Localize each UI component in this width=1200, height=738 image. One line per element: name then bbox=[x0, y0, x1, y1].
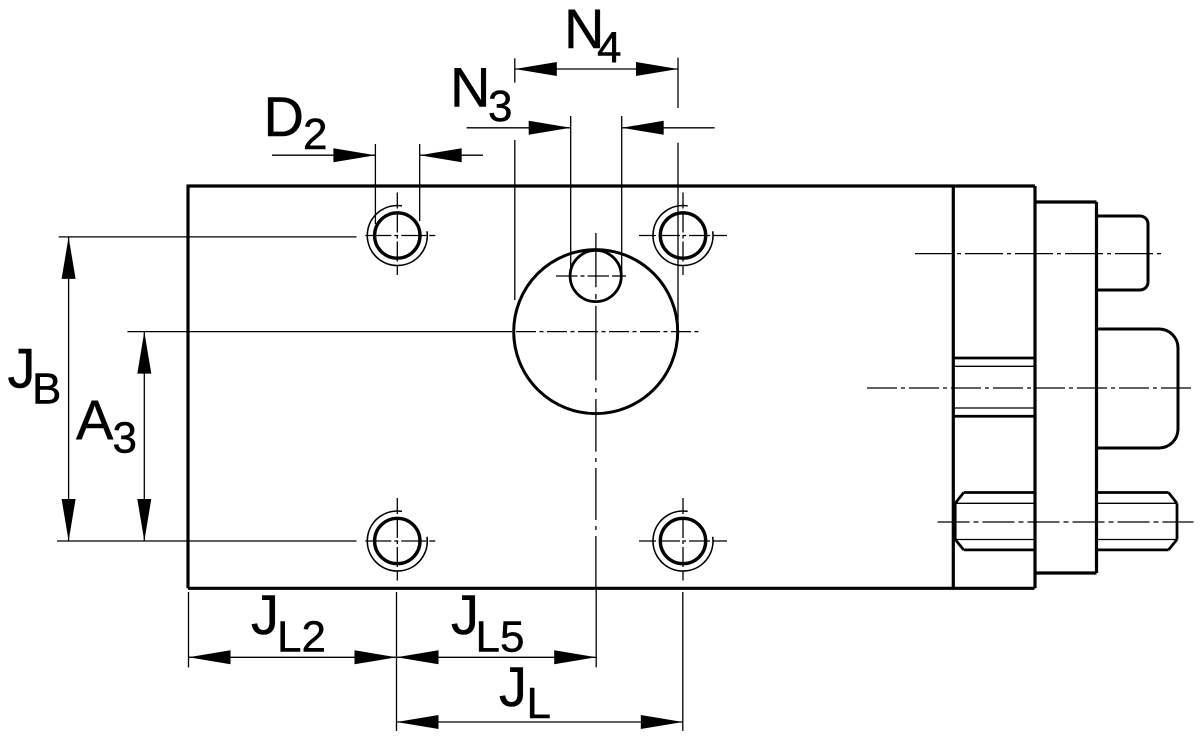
left stud thread lines bbox=[955, 503, 1034, 539]
main body outline (plan view) bbox=[188, 185, 1035, 589]
label N3 bbox=[450, 56, 512, 131]
bottom-left hole extension line bbox=[396, 592, 398, 731]
dimension D2 leader lines bbox=[272, 154, 483, 156]
JB top extension line bbox=[59, 236, 357, 238]
label JL bbox=[499, 655, 551, 728]
svg-text:J: J bbox=[251, 583, 279, 646]
pilot circle vertical centerline bbox=[595, 233, 597, 588]
dimension D2 extension lines bbox=[374, 144, 376, 224]
dimension JL5 arrows bbox=[397, 650, 439, 664]
top plug centerline bbox=[915, 253, 1163, 255]
dimension JL5 line bbox=[397, 656, 597, 658]
svg-text:L2: L2 bbox=[277, 613, 326, 662]
adapter plate outline bbox=[1035, 202, 1097, 573]
spring washer ring bottom-left bbox=[367, 511, 427, 571]
JL2 left extension line bbox=[188, 592, 190, 668]
dimension A3 arrows bbox=[137, 332, 151, 374]
svg-text:2: 2 bbox=[303, 110, 327, 159]
hole centerline vertical bottom-left bbox=[396, 498, 398, 581]
hole centerline vertical top-left bbox=[396, 193, 398, 276]
dimension A3 line bbox=[143, 332, 145, 541]
pilot circle horizontal centerline dashes bbox=[516, 331, 699, 333]
dimension N3 extension lines bbox=[570, 116, 572, 270]
central pilot circle bbox=[514, 250, 678, 414]
top port plug (rounded) bbox=[1097, 216, 1149, 290]
dimension N4 line bbox=[515, 68, 678, 70]
dimension N3 arrows bbox=[529, 121, 571, 135]
flange groove thin lines bbox=[953, 366, 1035, 408]
right stud thread lines bbox=[1097, 503, 1178, 539]
label A3 bbox=[76, 388, 137, 463]
dimension N4 arrows bbox=[515, 62, 557, 76]
spring washer ring top-right bbox=[653, 206, 713, 266]
dimension JB line bbox=[68, 237, 70, 541]
dimension JL line bbox=[397, 721, 683, 723]
dimension N4 extension lines bbox=[514, 58, 516, 300]
mounting hole bottom-right bbox=[660, 518, 705, 563]
svg-text:B: B bbox=[32, 365, 61, 414]
hole centerline vertical bottom-right bbox=[682, 498, 684, 581]
label JB bbox=[8, 337, 62, 414]
hole centerline horizontal top-right bbox=[639, 235, 727, 237]
svg-text:D: D bbox=[264, 85, 304, 148]
right threaded stud outline bbox=[1097, 493, 1178, 550]
mounting hole bottom-left bbox=[375, 518, 420, 563]
hole centerline horizontal bottom-left bbox=[365, 540, 435, 542]
left threaded stud outline bbox=[955, 493, 1034, 550]
svg-text:L: L bbox=[527, 679, 551, 728]
hole centerline horizontal top-left bbox=[365, 235, 435, 237]
svg-text:4: 4 bbox=[597, 24, 621, 73]
svg-text:3: 3 bbox=[488, 82, 512, 131]
label D2 bbox=[264, 85, 328, 159]
middle port plug (rounded) bbox=[1097, 329, 1179, 448]
dimension JL2 line bbox=[189, 656, 397, 658]
svg-text:3: 3 bbox=[113, 414, 137, 463]
lubrication hole circle bbox=[570, 250, 621, 301]
JL5 extension line below body bbox=[595, 590, 597, 667]
dimension JL2 arrows bbox=[189, 650, 231, 664]
hole centerline vertical top-right bbox=[682, 193, 684, 276]
svg-text:J: J bbox=[499, 655, 527, 718]
svg-text:N: N bbox=[450, 56, 490, 119]
hole centerline horizontal bottom-right bbox=[639, 540, 727, 542]
spring washer ring top-left bbox=[367, 206, 427, 266]
mounting hole top-right bbox=[660, 213, 705, 258]
JL right extension line bbox=[682, 592, 684, 731]
dimension N3 leader lines bbox=[467, 127, 715, 129]
label JL2 bbox=[251, 583, 326, 662]
label N4 bbox=[564, 0, 621, 73]
middle plug centerline bbox=[867, 387, 1194, 389]
lubrication hole centerline bbox=[556, 275, 626, 277]
flange groove thick lines bbox=[953, 358, 1035, 416]
label JL5 bbox=[451, 583, 524, 662]
JB bottom extension line bbox=[57, 540, 357, 542]
dimension JL arrows bbox=[397, 715, 439, 729]
dimension JB arrows bbox=[62, 237, 76, 279]
spring washer ring bottom-right bbox=[653, 511, 713, 571]
A3 extension / pilot circle horizontal centerline bbox=[127, 331, 512, 333]
dimension D2 arrows bbox=[333, 148, 375, 162]
svg-text:A: A bbox=[76, 388, 114, 451]
bottom stud centerline bbox=[938, 521, 1194, 523]
mounting hole top-left bbox=[375, 213, 420, 258]
